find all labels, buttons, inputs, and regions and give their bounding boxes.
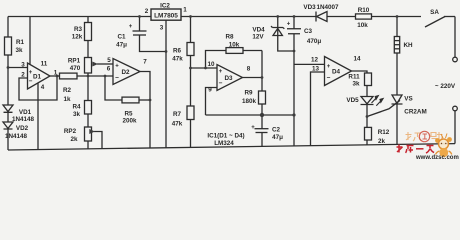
resistor R3 (85, 23, 92, 41)
diode VD2 (3, 122, 13, 129)
svg-text:VD5: VD5 (346, 97, 359, 104)
thyristor VS (392, 95, 403, 104)
watermark mascot (435, 134, 452, 158)
svg-text:12k: 12k (72, 34, 83, 41)
regulator IC2 LM7805 (151, 9, 181, 20)
svg-text:+: + (219, 69, 223, 75)
watermark red circle logo (419, 131, 429, 141)
wire R8 down to D3 output node (261, 51, 263, 92)
junction pin12 node (292, 113, 295, 116)
svg-text:2k: 2k (70, 136, 78, 143)
resistor R12 (366, 117, 368, 128)
svg-text:10k: 10k (229, 42, 240, 49)
wire pin3 D1 (8, 67, 28, 69)
junction pin6 node (104, 75, 107, 78)
svg-text:470: 470 (70, 65, 81, 72)
wire D4 out to R11 (352, 71, 368, 73)
svg-text:8: 8 (247, 66, 251, 73)
svg-text:−: − (29, 78, 33, 85)
resistor R10 (356, 14, 372, 19)
wire D2 output down (140, 72, 150, 149)
svg-text:+: + (327, 64, 331, 70)
resistor R8 (226, 48, 243, 54)
svg-text:RP1: RP1 (68, 58, 81, 65)
svg-text:IC2: IC2 (160, 3, 170, 10)
svg-text:2: 2 (21, 72, 25, 79)
junction C3/top rail (293, 15, 296, 18)
svg-text:10k: 10k (357, 22, 368, 29)
svg-text:7: 7 (143, 59, 147, 66)
svg-text:180k: 180k (242, 98, 257, 105)
junction C2 node (260, 113, 264, 117)
svg-text:1N4007: 1N4007 (316, 4, 339, 11)
op-amp D2 (113, 59, 140, 85)
svg-text:+: + (251, 125, 255, 131)
junction R6/top rail (189, 15, 192, 18)
svg-text:3k: 3k (73, 111, 81, 118)
junction KH/top rail (396, 15, 399, 18)
wire R2 to divider node and pin6 (77, 75, 113, 77)
watermark bold red text wei ku yi xia (397, 145, 435, 154)
node line pin9/C2/pin12 (206, 114, 295, 116)
svg-text:R10: R10 (358, 7, 370, 14)
svg-text:1N4148: 1N4148 (5, 133, 28, 140)
thyristor gate wire (367, 100, 400, 116)
LED VD5 (361, 97, 374, 105)
top rail left (8, 16, 151, 18)
svg-text:R3: R3 (74, 26, 83, 33)
svg-text:2k: 2k (378, 138, 386, 145)
svg-text:R4: R4 (72, 104, 81, 111)
svg-text:9: 9 (208, 87, 212, 94)
wire pin12 D4 (294, 63, 325, 65)
svg-text:−: − (115, 75, 119, 82)
junction VD5/gate node (366, 115, 369, 118)
resistor R2 (60, 73, 78, 79)
svg-text:LM324: LM324 (214, 140, 234, 147)
svg-text:VD1: VD1 (19, 109, 32, 116)
svg-text:10: 10 (207, 61, 215, 68)
diode VD1 (3, 105, 13, 112)
svg-text:D4: D4 (332, 69, 341, 76)
switch SA blade (425, 17, 445, 28)
svg-text:SA: SA (430, 9, 439, 16)
svg-text:3: 3 (160, 25, 164, 32)
junction R1/VD1 node (7, 66, 10, 69)
resistor R6 (190, 17, 192, 43)
svg-text:D3: D3 (224, 75, 233, 82)
wire R6-R7 node (190, 56, 192, 107)
svg-text:1: 1 (183, 7, 187, 14)
svg-text:47k: 47k (172, 56, 183, 63)
svg-text:R1: R1 (16, 39, 25, 46)
potentiometer RP2 (85, 127, 92, 141)
watermark faint orange characters (406, 132, 443, 142)
svg-text:3: 3 (21, 62, 25, 69)
svg-text:R9: R9 (244, 90, 253, 97)
wire R8 left leg (206, 51, 227, 69)
wiper RP1 to pin5 D2 (97, 63, 113, 65)
svg-text:D2: D2 (121, 69, 130, 76)
svg-text:CR2AM: CR2AM (404, 109, 426, 116)
svg-text:R2: R2 (63, 87, 72, 94)
heater KH (396, 17, 398, 37)
svg-text:+: + (115, 64, 119, 70)
svg-text:47μ: 47μ (272, 134, 283, 141)
svg-text:C2: C2 (272, 127, 281, 134)
svg-text:200k: 200k (122, 118, 137, 125)
svg-text:3k: 3k (15, 47, 23, 54)
svg-text:R12: R12 (378, 129, 390, 136)
svg-text:KH: KH (403, 42, 413, 49)
wire pin2 D1 + feedback loop (19, 76, 57, 100)
top rail right (181, 16, 316, 18)
bottom ground rail (8, 144, 455, 150)
svg-text:VS: VS (404, 96, 412, 103)
svg-text:R11: R11 (348, 74, 360, 81)
terminal circle bottom (453, 106, 458, 111)
svg-text:C1: C1 (117, 34, 126, 41)
junction C1 ground (165, 50, 168, 53)
svg-text:R8: R8 (225, 34, 234, 41)
svg-text:1N4148: 1N4148 (12, 116, 35, 123)
resistor R1 (5, 37, 12, 55)
junction R8/pin10 (204, 67, 207, 70)
zener VD4 (277, 17, 279, 28)
svg-text:11: 11 (41, 61, 48, 68)
svg-text:−: − (219, 80, 223, 87)
potentiometer RP1 (85, 58, 92, 74)
diode VD3 (315, 12, 317, 22)
svg-text:R6: R6 (173, 48, 182, 55)
svg-text:47k: 47k (172, 121, 183, 128)
svg-text:+: + (129, 24, 133, 30)
svg-text:1k: 1k (63, 96, 71, 103)
svg-text:3k: 3k (352, 81, 360, 88)
svg-text:12V: 12V (252, 34, 264, 41)
op-amp D1 (28, 63, 51, 89)
svg-text:14: 14 (353, 56, 361, 63)
junction C1/top rail (138, 15, 141, 18)
left edge column (7, 17, 9, 38)
capacitor C1 (139, 17, 141, 32)
op-amp D4 (325, 57, 352, 86)
svg-text:C3: C3 (304, 28, 313, 35)
wire pin4 D1 to ground (37, 83, 39, 150)
svg-text:13: 13 (312, 66, 320, 73)
resistor R5 (122, 97, 139, 103)
terminal circle top (453, 57, 458, 62)
junction VD4/top rail (276, 15, 279, 18)
svg-text:VD2: VD2 (16, 125, 29, 132)
junction divider node (87, 75, 90, 78)
resistor R4 (85, 101, 92, 115)
junction R5/D2 output (149, 99, 152, 102)
svg-text:47μ: 47μ (116, 42, 127, 49)
wire pin13 D4 down (311, 72, 325, 146)
resistor R9 (259, 91, 266, 104)
resistor R7 (187, 106, 194, 120)
wire pin11 D1 (29, 17, 31, 65)
svg-text:www.dzsc.com: www.dzsc.com (415, 155, 459, 160)
wire pin3 LM7805 to ground (165, 20, 167, 147)
svg-text:R7: R7 (173, 111, 182, 118)
junction R6/R7 node (189, 67, 192, 70)
svg-text:IC1(D1 ~ D4): IC1(D1 ~ D4) (207, 133, 244, 140)
svg-text:4: 4 (41, 84, 45, 91)
svg-text:LM7805: LM7805 (154, 12, 178, 19)
svg-text:R5: R5 (124, 111, 133, 118)
capacitor C3 (293, 17, 295, 29)
svg-text:VD4: VD4 (252, 27, 265, 34)
wire D3 output (243, 77, 263, 79)
svg-text:+: + (29, 70, 33, 76)
wire pin9 D3 (206, 88, 218, 116)
junction VD4/C3 ground (293, 50, 296, 53)
wiper RP2 (94, 132, 102, 149)
LED arrows (372, 96, 379, 103)
capacitor C2 (255, 128, 269, 130)
svg-text:+: + (287, 22, 291, 28)
svg-text:470μ: 470μ (307, 38, 322, 45)
svg-text:RP2: RP2 (64, 128, 77, 135)
svg-text:~ 220V: ~ 220V (435, 83, 456, 90)
svg-text:1: 1 (54, 70, 58, 77)
right edge column (454, 17, 456, 58)
svg-text:5: 5 (107, 57, 111, 64)
svg-text:VD3: VD3 (303, 4, 316, 11)
svg-text:12: 12 (311, 57, 319, 64)
svg-text:6: 6 (107, 66, 111, 73)
svg-text:D1: D1 (33, 74, 42, 81)
wire R5 feedback to pin6 (105, 76, 122, 100)
junction D1 feedback node (56, 75, 59, 78)
resistor R11 (365, 73, 372, 86)
op-amp D3 (217, 65, 243, 91)
junction D3 output node (261, 76, 264, 79)
wire pin10 D3 (191, 67, 218, 69)
svg-text:2: 2 (145, 8, 149, 15)
wire D1 output (50, 75, 60, 77)
svg-text:−: − (327, 75, 331, 82)
